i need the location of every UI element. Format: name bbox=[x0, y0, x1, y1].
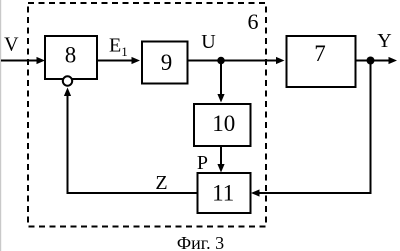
summing circle on block 8 bbox=[63, 76, 72, 85]
svg-text:V: V bbox=[4, 34, 19, 56]
label P bbox=[197, 152, 208, 174]
svg-text:11: 11 bbox=[212, 181, 234, 206]
wire feedback from node Y down and left into block 11 with arrowhead bbox=[251, 61, 371, 197]
label Z bbox=[155, 172, 167, 194]
block 9 bbox=[142, 42, 188, 84]
block 7 bbox=[287, 36, 356, 87]
wire Z from block 11 left and up to summing circle with arrowhead bbox=[64, 88, 198, 194]
svg-text:7: 7 bbox=[314, 41, 326, 66]
label Y bbox=[377, 30, 391, 52]
node Y junction dot bbox=[367, 57, 375, 65]
scan edge artifact left bbox=[0, 0, 1, 251]
svg-text:U: U bbox=[201, 31, 216, 53]
label E1 bbox=[109, 35, 128, 60]
svg-text:6: 6 bbox=[248, 9, 259, 34]
wire block 9 to block 7 with arrowhead bbox=[188, 57, 285, 64]
node U junction dot bbox=[217, 57, 225, 65]
caption Фиг. 3 bbox=[177, 233, 224, 251]
block 8 bbox=[45, 36, 97, 79]
wire block 10 to block 11 signal P with arrowhead bbox=[217, 146, 224, 173]
block 10 bbox=[194, 104, 251, 146]
svg-text:Фиг. 3: Фиг. 3 bbox=[177, 233, 224, 251]
wire node U down to block 10 with arrowhead bbox=[217, 61, 224, 103]
svg-text:Z: Z bbox=[155, 172, 167, 194]
svg-text:9: 9 bbox=[161, 50, 173, 75]
wire V input with arrowhead bbox=[1, 57, 45, 64]
label U bbox=[201, 31, 216, 53]
label V bbox=[4, 34, 19, 56]
svg-text:10: 10 bbox=[212, 111, 235, 136]
block 11 bbox=[198, 173, 251, 213]
svg-text:P: P bbox=[197, 152, 208, 174]
wire block 8 to block 9 with arrowhead bbox=[97, 57, 140, 64]
label 6 bbox=[248, 9, 259, 34]
wire block 7 output Y with arrowhead bbox=[356, 57, 398, 64]
dashed boundary box of device 6 bbox=[28, 3, 266, 227]
svg-text:Y: Y bbox=[377, 30, 391, 52]
svg-text:8: 8 bbox=[65, 43, 77, 68]
